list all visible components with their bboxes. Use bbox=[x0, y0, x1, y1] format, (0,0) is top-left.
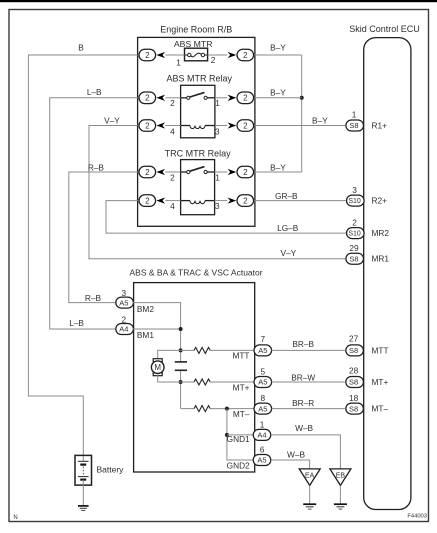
motor branch top wire bbox=[158, 350, 181, 360]
svg-text:GR–B: GR–B bbox=[275, 191, 298, 201]
wire TRC relay pin2 stub bbox=[165, 171, 180, 173]
svg-text:S10: S10 bbox=[348, 198, 361, 205]
wire V-Y (ABS relay pin4 to MR1) bbox=[89, 126, 345, 259]
svg-text:MT+: MT+ bbox=[372, 377, 389, 387]
ground symbol EA bbox=[303, 504, 316, 509]
svg-text:MR1: MR1 bbox=[372, 254, 390, 264]
coil of TRC MTR Relay bbox=[181, 201, 215, 204]
wire L-B (ABS relay pin2 to BM1) bbox=[50, 98, 139, 329]
svg-text:Skid Control ECU: Skid Control ECU bbox=[349, 24, 420, 34]
svg-text:M: M bbox=[154, 363, 161, 372]
svg-text:8: 8 bbox=[260, 393, 265, 403]
ground point EB bbox=[330, 469, 351, 486]
svg-text:TRC MTR Relay: TRC MTR Relay bbox=[165, 149, 232, 159]
wire ABS relay pin1 stub bbox=[215, 97, 227, 99]
wire W-B GND2 to EA bbox=[271, 460, 310, 469]
svg-text:4: 4 bbox=[170, 201, 175, 211]
svg-text:B: B bbox=[78, 43, 84, 53]
svg-text:2: 2 bbox=[145, 121, 150, 130]
wire ground branch vertical bbox=[227, 409, 253, 460]
connector 2 row4 right bbox=[228, 166, 254, 178]
svg-text:W–B: W–B bbox=[295, 423, 313, 433]
wire MTT row left bbox=[181, 349, 194, 351]
connector 2 row1 right bbox=[228, 49, 254, 61]
connector A5 pin3 BM2 bbox=[116, 288, 134, 308]
wire MTT row right bbox=[210, 349, 254, 351]
svg-text:LG–B: LG–B bbox=[277, 223, 299, 233]
motor M bbox=[151, 359, 164, 376]
battery bbox=[75, 455, 124, 485]
svg-text:MT+: MT+ bbox=[233, 382, 250, 392]
wire BM2 internal bbox=[133, 303, 181, 362]
wire EB to ground bbox=[339, 485, 341, 503]
connector S10 pin2 MR2 bbox=[347, 217, 390, 238]
svg-text:3: 3 bbox=[121, 288, 126, 298]
connector S8 pin29 MR1 bbox=[346, 243, 390, 264]
connector A5 pin7 MTT bbox=[254, 334, 272, 356]
junction B-Y bus row2 bbox=[300, 96, 304, 100]
svg-text:MTT: MTT bbox=[232, 350, 249, 360]
wire bus below capacitor bbox=[180, 371, 182, 409]
svg-text:L–B: L–B bbox=[69, 318, 84, 328]
wire fuse pin1 stub bbox=[165, 54, 184, 56]
svg-text:B–Y: B–Y bbox=[312, 116, 328, 126]
svg-text:GND2: GND2 bbox=[227, 461, 250, 471]
svg-text:S8: S8 bbox=[349, 378, 358, 387]
svg-text:2: 2 bbox=[352, 217, 357, 227]
svg-text:1: 1 bbox=[176, 57, 181, 67]
connector A4 pin1 GND1 bbox=[253, 419, 271, 440]
svg-text:Battery: Battery bbox=[97, 465, 125, 475]
svg-text:MT–: MT– bbox=[233, 409, 250, 419]
svg-text:F44003: F44003 bbox=[407, 514, 427, 520]
wire battery to ground bbox=[82, 485, 84, 505]
svg-text:A5: A5 bbox=[258, 346, 267, 355]
capacitor C bbox=[175, 362, 187, 370]
svg-text:L–B: L–B bbox=[87, 87, 102, 97]
wire LG-B (TRC relay pin4 to MR2) bbox=[106, 201, 346, 234]
svg-text:A5: A5 bbox=[257, 456, 266, 465]
svg-text:R2+: R2+ bbox=[372, 196, 388, 206]
svg-text:S8: S8 bbox=[349, 346, 358, 355]
wire B-Y TRC relay pin1 bbox=[254, 171, 302, 173]
resistor MT- bbox=[194, 406, 210, 412]
svg-text:3: 3 bbox=[352, 185, 357, 195]
connector A5 pin5 MT+ bbox=[254, 366, 272, 387]
relay ABS MTR Relay bbox=[166, 73, 232, 137]
svg-text:R–B: R–B bbox=[85, 293, 102, 303]
svg-text:S8: S8 bbox=[349, 121, 358, 130]
svg-text:B–Y: B–Y bbox=[270, 43, 286, 53]
wire W-B GND1 to EB bbox=[271, 435, 341, 469]
junction MTT bus bbox=[179, 348, 183, 352]
svg-text:3: 3 bbox=[215, 201, 220, 211]
connector 2 row2 left bbox=[139, 92, 165, 104]
connector 2 row5 left bbox=[139, 195, 165, 207]
wire BR-R MT- bbox=[272, 408, 345, 410]
wire BR-B MTT bbox=[272, 349, 345, 351]
svg-text:R–B: R–B bbox=[88, 162, 105, 172]
connector 2 row4 left bbox=[139, 166, 165, 178]
wire EA to ground bbox=[309, 485, 311, 503]
connector S8 pin18 MT- bbox=[346, 393, 389, 414]
wire MT+ row right bbox=[210, 381, 254, 383]
ground symbol EB bbox=[334, 504, 347, 509]
svg-text:MTT: MTT bbox=[372, 345, 389, 355]
svg-text:1: 1 bbox=[260, 419, 265, 429]
ECU box Skid Control ECU bbox=[349, 24, 420, 509]
wire B-Y fuse out bbox=[254, 54, 302, 56]
svg-text:1: 1 bbox=[215, 172, 220, 182]
svg-text:3: 3 bbox=[215, 126, 220, 136]
svg-text:B–Y: B–Y bbox=[270, 162, 286, 172]
svg-text:MR2: MR2 bbox=[372, 228, 390, 238]
wire MT- row bbox=[181, 408, 194, 410]
wire B-Y bus vertical bbox=[301, 55, 303, 172]
connector A5 pin6 GND2 bbox=[253, 444, 271, 465]
relay TRC MTR Relay bbox=[165, 149, 232, 215]
wire fuse pin2 stub bbox=[208, 54, 228, 56]
svg-text:Engine Room R/B: Engine Room R/B bbox=[160, 25, 232, 35]
wire TRC relay pin3 stub bbox=[215, 200, 228, 202]
svg-text:R1+: R1+ bbox=[372, 121, 388, 131]
wire TRC relay pin4 stub bbox=[165, 200, 180, 202]
connector 2 row3 right bbox=[228, 120, 254, 132]
svg-text:ABS MTR Relay: ABS MTR Relay bbox=[166, 73, 232, 83]
svg-text:N: N bbox=[13, 515, 17, 521]
wire ABS relay pin2 stub bbox=[165, 97, 180, 99]
svg-text:5: 5 bbox=[260, 366, 265, 376]
connector 2 row1 left bbox=[139, 49, 165, 61]
svg-text:2: 2 bbox=[243, 94, 248, 103]
svg-text:BR–W: BR–W bbox=[291, 372, 315, 382]
wire B-Y to R1+ bbox=[254, 125, 346, 127]
svg-text:A4: A4 bbox=[257, 431, 266, 440]
junction MT+ bus bbox=[179, 380, 183, 384]
svg-text:GND1: GND1 bbox=[227, 434, 250, 444]
fuse ABS MTR bbox=[174, 39, 213, 61]
connector 2 row5 right bbox=[228, 195, 254, 207]
junction GND1 bbox=[225, 433, 229, 437]
svg-text:S8: S8 bbox=[349, 404, 358, 413]
svg-text:2: 2 bbox=[243, 196, 248, 205]
switch contact of ABS MTR Relay bbox=[181, 92, 215, 99]
svg-text:4: 4 bbox=[170, 126, 175, 136]
connector A5 pin8 MT- bbox=[254, 393, 272, 414]
wire BM1 internal bbox=[133, 328, 181, 330]
connector S8 pin27 MTT bbox=[346, 333, 389, 356]
svg-text:BR–B: BR–B bbox=[292, 339, 314, 349]
connector S8 pin1 R1+ bbox=[346, 110, 387, 131]
svg-text:2: 2 bbox=[243, 121, 248, 130]
svg-text:S10: S10 bbox=[348, 231, 361, 238]
svg-text:A5: A5 bbox=[119, 298, 128, 307]
svg-text:6: 6 bbox=[260, 444, 265, 454]
connector 2 row3 left bbox=[139, 120, 165, 132]
svg-text:2: 2 bbox=[170, 172, 175, 182]
svg-text:BM1: BM1 bbox=[137, 330, 154, 340]
svg-text:2: 2 bbox=[243, 51, 248, 60]
svg-text:V–Y: V–Y bbox=[280, 248, 296, 258]
connector 2 row2 right bbox=[228, 92, 254, 104]
svg-text:28: 28 bbox=[349, 365, 359, 375]
resistor MT+ bbox=[194, 379, 210, 385]
svg-text:S8: S8 bbox=[349, 254, 358, 263]
svg-text:29: 29 bbox=[349, 243, 359, 253]
wire ABS relay pin4 stub bbox=[165, 125, 180, 127]
svg-text:V–Y: V–Y bbox=[104, 116, 120, 126]
svg-text:EB: EB bbox=[336, 472, 346, 479]
svg-text:ABS & BA & TRAC & VSC Actuator: ABS & BA & TRAC & VSC Actuator bbox=[130, 268, 263, 278]
svg-text:1: 1 bbox=[352, 110, 357, 120]
svg-text:W–B: W–B bbox=[287, 450, 305, 460]
resistor MTT bbox=[194, 347, 210, 353]
svg-text:2: 2 bbox=[243, 168, 248, 177]
wire GND1 row bbox=[227, 434, 253, 436]
Engine Room R/B box bbox=[138, 25, 255, 227]
svg-text:2: 2 bbox=[145, 196, 150, 205]
wire GR-B to R2+ bbox=[254, 200, 346, 202]
svg-text:2: 2 bbox=[145, 51, 150, 60]
svg-text:1: 1 bbox=[215, 98, 220, 108]
svg-text:A5: A5 bbox=[258, 378, 267, 387]
svg-text:A5: A5 bbox=[258, 404, 267, 413]
wire B-Y ABS relay pin1 bbox=[254, 97, 302, 99]
svg-text:2: 2 bbox=[211, 55, 216, 65]
svg-text:BM2: BM2 bbox=[137, 304, 154, 314]
svg-text:2: 2 bbox=[145, 168, 150, 177]
wire MT- row right bbox=[210, 408, 254, 410]
wire BR-W MT+ bbox=[272, 381, 345, 383]
connector A4 pin2 BM1 bbox=[116, 314, 134, 334]
svg-text:EA: EA bbox=[305, 472, 315, 479]
junction BM1 bus bbox=[179, 327, 183, 331]
switch contact of TRC MTR Relay bbox=[181, 167, 215, 174]
connector S10 pin3 R2+ bbox=[347, 185, 388, 206]
wire TRC relay pin1 stub bbox=[215, 171, 228, 173]
svg-text:MT–: MT– bbox=[372, 404, 389, 414]
wire ABS relay pin3 stub bbox=[215, 125, 227, 127]
svg-text:7: 7 bbox=[260, 334, 265, 344]
actuator box ABS & BA & TRAC & VSC Actuator bbox=[130, 268, 263, 472]
svg-text:A4: A4 bbox=[119, 325, 128, 334]
svg-text:BR–R: BR–R bbox=[292, 398, 314, 408]
coil of ABS MTR Relay bbox=[181, 126, 215, 129]
svg-text:B–Y: B–Y bbox=[270, 88, 286, 98]
svg-text:18: 18 bbox=[349, 393, 359, 403]
connector S8 pin28 MT+ bbox=[346, 365, 389, 387]
wire B (fuse pin1 to battery +) bbox=[28, 55, 139, 455]
svg-text:2: 2 bbox=[170, 98, 175, 108]
motor branch bottom wire bbox=[158, 375, 181, 382]
ground point EA bbox=[299, 469, 320, 486]
wire MT+ row left bbox=[181, 381, 194, 383]
svg-text:2: 2 bbox=[145, 94, 150, 103]
wire R-B (TRC relay pin2 to BM2) bbox=[69, 172, 139, 303]
junction MT- to ground branch bbox=[225, 407, 229, 411]
ground symbol battery bbox=[78, 506, 89, 511]
svg-text:27: 27 bbox=[349, 333, 359, 343]
